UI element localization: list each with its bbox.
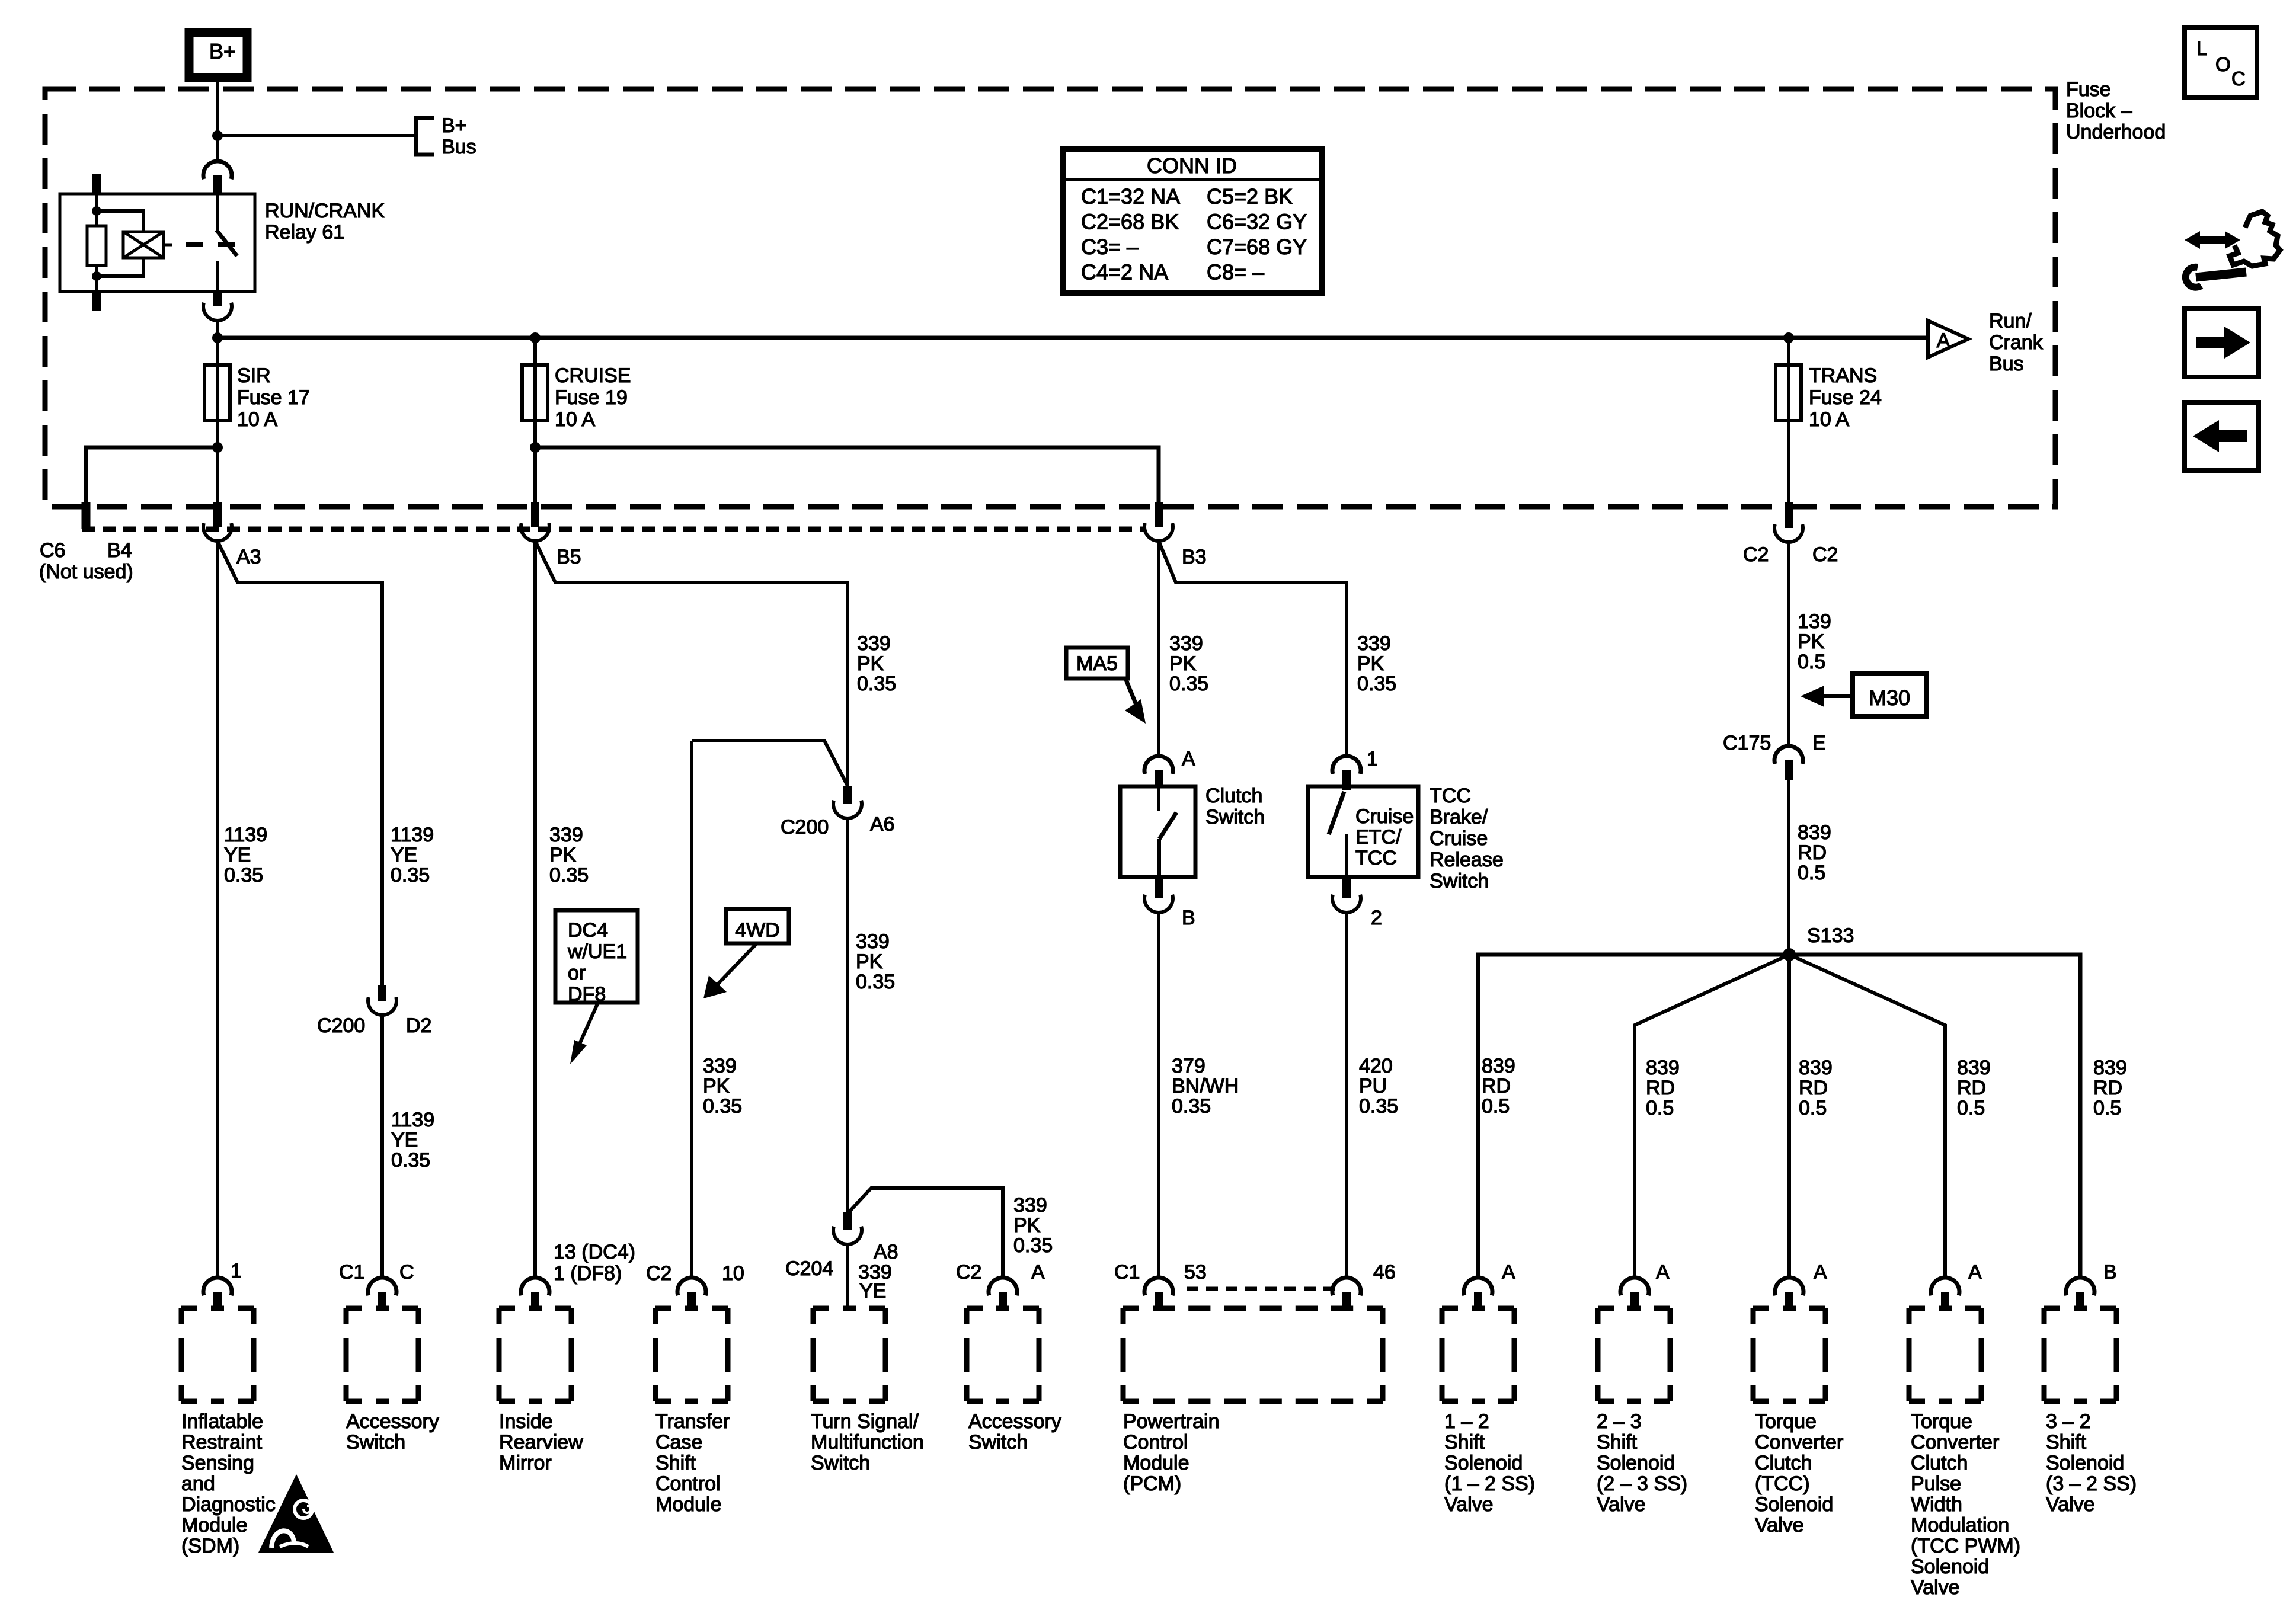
svg-text:Module: Module [655, 1493, 722, 1516]
svg-text:Clutch: Clutch [1755, 1452, 1812, 1474]
svg-text:Diagnostic: Diagnostic [181, 1493, 276, 1516]
svg-text:839: 839 [2093, 1057, 2127, 1079]
svg-text:Solenoid: Solenoid [1911, 1555, 1989, 1578]
svg-text:Transfer: Transfer [655, 1410, 730, 1433]
harness connector dotted line C200 row [82, 527, 1144, 532]
svg-text:0.35: 0.35 [391, 864, 430, 886]
svg-text:Shift: Shift [655, 1452, 696, 1474]
coil branch wires [97, 211, 143, 232]
wire B+ to relay [216, 78, 219, 161]
svg-text:1: 1 [231, 1260, 242, 1282]
connector pin into component at x=2272 [1332, 1278, 1361, 1295]
svg-text:A: A [1656, 1261, 1670, 1283]
svg-text:RD: RD [2093, 1077, 2122, 1099]
node: junction below CRUISE fuse [530, 442, 541, 453]
service manual icon (arrow, silhouette, wrench) [2185, 212, 2280, 287]
svg-text:Bus: Bus [1989, 353, 2024, 375]
svg-text:Valve: Valve [2046, 1493, 2095, 1516]
svg-text:C200: C200 [781, 816, 829, 838]
svg-text:339: 339 [857, 632, 891, 655]
fuse block underhood dashed outline [45, 89, 2055, 507]
svg-text:1: 1 [1367, 748, 1378, 770]
svg-text:A: A [1031, 1261, 1045, 1283]
svg-text:Fuse 19: Fuse 19 [555, 386, 628, 409]
component box: TCC PWM Solenoid Valve [1909, 1306, 1981, 1311]
connector pin into component at x=903 [521, 1278, 549, 1295]
svg-text:Width: Width [1911, 1493, 1962, 1516]
svg-text:53: 53 [1184, 1261, 1207, 1283]
svg-text:O: O [2215, 53, 2231, 75]
wire to B4 terminal [86, 447, 218, 502]
wire A3 down to SDM [216, 541, 219, 1278]
svg-text:w/UE1: w/UE1 [567, 940, 627, 963]
connector pin into component at x=367 [203, 1278, 232, 1295]
svg-text:339: 339 [1357, 632, 1391, 655]
svg-text:or: or [568, 962, 586, 984]
svg-text:MA5: MA5 [1076, 652, 1118, 675]
svg-text:Shift: Shift [1597, 1431, 1638, 1454]
svg-text:A6: A6 [870, 813, 895, 836]
svg-text:PK: PK [549, 844, 577, 866]
svg-text:C: C [399, 1261, 414, 1283]
connector pin into component at x=3019 [1775, 1278, 1803, 1295]
4WD option box [726, 909, 789, 943]
svg-text:Fuse 17: Fuse 17 [237, 386, 310, 409]
svg-text:Block –: Block – [2066, 100, 2132, 122]
svg-text:E: E [1812, 732, 1826, 754]
connector C200 pin D2 [378, 985, 386, 1001]
svg-text:Solenoid: Solenoid [2046, 1452, 2124, 1474]
svg-text:B3: B3 [1182, 546, 1207, 568]
CONN ID table [1063, 149, 1322, 293]
wire branch B3 to cruise switch [1159, 541, 1347, 756]
svg-text:RD: RD [1482, 1075, 1511, 1097]
component box: Inflatable Restraint SDM [181, 1306, 254, 1311]
svg-text:B+: B+ [209, 39, 236, 63]
svg-text:Converter: Converter [1755, 1431, 1843, 1454]
svg-text:0.35: 0.35 [1172, 1095, 1211, 1118]
svg-text:C200: C200 [317, 1014, 365, 1037]
svg-text:Solenoid: Solenoid [1597, 1452, 1675, 1474]
svg-text:Multifunction: Multifunction [811, 1431, 924, 1454]
svg-text:C2=68 BK: C2=68 BK [1081, 210, 1179, 234]
svg-text:Clutch: Clutch [1205, 785, 1262, 807]
svg-text:B: B [1182, 907, 1195, 929]
svg-text:0.35: 0.35 [549, 864, 589, 886]
wire bus to TRANS fuse [1787, 338, 1790, 365]
svg-text:PK: PK [1357, 652, 1384, 675]
relay coil (X box) [123, 232, 164, 258]
component box: Accessory Switch 2 [967, 1306, 1039, 1311]
svg-text:Control: Control [655, 1473, 721, 1495]
clutch switch contacts [1157, 786, 1160, 811]
svg-text:339: 339 [549, 824, 583, 846]
connector pin 1 cruise switch [1332, 756, 1361, 774]
svg-text:PU: PU [1359, 1075, 1387, 1097]
connector pin into component at x=1167 [677, 1278, 706, 1295]
svg-text:Converter: Converter [1911, 1431, 1999, 1454]
svg-text:CRUISE: CRUISE [555, 364, 631, 387]
LOC legend box [2185, 28, 2257, 98]
svg-text:TCC: TCC [1430, 785, 1471, 807]
wire to B3 drop [535, 447, 1159, 502]
component box: Turn Signal/Multifunction Switch [813, 1306, 885, 1311]
svg-text:C2: C2 [1743, 543, 1769, 566]
wire S133 to 3-2 shift solenoid [1789, 955, 2080, 1278]
svg-text:A3: A3 [236, 546, 261, 568]
svg-text:YE: YE [391, 1129, 418, 1151]
B+ battery feed terminal [189, 33, 247, 78]
svg-text:BN/WH: BN/WH [1172, 1075, 1239, 1097]
svg-text:Switch: Switch [1205, 806, 1265, 828]
svg-text:TRANS: TRANS [1809, 364, 1877, 387]
component box: Inside Rearview Mirror [499, 1306, 571, 1311]
svg-text:Brake/: Brake/ [1430, 806, 1488, 828]
svg-text:Fuse: Fuse [2066, 78, 2111, 101]
svg-text:339: 339 [703, 1055, 737, 1077]
svg-text:YE: YE [859, 1280, 886, 1302]
coil-to-switch dashed actuator link [164, 244, 172, 247]
svg-text:Accessory: Accessory [346, 1410, 439, 1433]
wire S133 to TCC solenoid [1787, 955, 1791, 1278]
svg-text:839: 839 [1482, 1055, 1515, 1077]
svg-text:Valve: Valve [1444, 1493, 1494, 1516]
svg-text:TCC: TCC [1355, 847, 1397, 869]
svg-text:2: 2 [1371, 907, 1382, 929]
svg-text:1139: 1139 [224, 824, 267, 846]
svg-text:RD: RD [1799, 1077, 1828, 1099]
svg-text:C2: C2 [956, 1261, 981, 1283]
svg-text:(3 – 2 SS): (3 – 2 SS) [2046, 1473, 2137, 1495]
svg-text:Control: Control [1123, 1431, 1188, 1454]
svg-text:10 A: 10 A [555, 408, 595, 431]
svg-text:Turn Signal/: Turn Signal/ [811, 1410, 919, 1433]
wire S133 to 1-2 shift solenoid [1478, 955, 1789, 1278]
connector C204 pin A8 [843, 1212, 852, 1230]
svg-text:Shift: Shift [1444, 1431, 1485, 1454]
wire: run/crank bus feed [218, 336, 1928, 340]
svg-text:Powertrain: Powertrain [1123, 1410, 1220, 1433]
dashed link between PCM pins 53 and 46 [1187, 1287, 1341, 1291]
svg-text:0.5: 0.5 [1646, 1097, 1674, 1119]
connector pin into component at x=3282 [1931, 1278, 1959, 1295]
svg-text:Switch: Switch [811, 1452, 870, 1474]
wire CRUISE relay output to SIR fuse [216, 338, 219, 365]
svg-text:0.35: 0.35 [703, 1095, 742, 1118]
svg-text:DC4: DC4 [568, 919, 608, 942]
component box: Accessory Switch 1 [346, 1306, 418, 1311]
wire B3 down to clutch switch [1157, 541, 1160, 756]
component box: Powertrain Control Module (PCM) [1123, 1306, 1383, 1311]
svg-text:0.35: 0.35 [1169, 673, 1208, 695]
connector pin into component at x=645 [368, 1278, 396, 1295]
svg-text:Sensing: Sensing [181, 1452, 254, 1474]
component box: TCC Solenoid Valve [1753, 1306, 1825, 1311]
clutch switch box [1120, 786, 1195, 877]
svg-text:RD: RD [1646, 1077, 1675, 1099]
svg-text:3 – 2: 3 – 2 [2046, 1410, 2091, 1433]
svg-text:379: 379 [1172, 1055, 1205, 1077]
forward arrow box [2185, 309, 2259, 377]
splice S133 [1783, 948, 1796, 961]
svg-text:B4: B4 [107, 539, 132, 562]
svg-text:13 (DC4): 13 (DC4) [554, 1241, 635, 1263]
connector pin into component at x=2494 [1464, 1278, 1492, 1295]
wire branch B5 to C200 A6 [535, 541, 848, 786]
svg-text:S133: S133 [1807, 924, 1854, 947]
svg-text:Inflatable: Inflatable [181, 1410, 263, 1433]
svg-text:A: A [1968, 1261, 1982, 1283]
svg-text:Underhood: Underhood [2066, 121, 2166, 143]
component box: 1-2 Shift Solenoid Valve [1442, 1306, 1514, 1311]
svg-text:46: 46 [1373, 1261, 1396, 1283]
svg-text:0.35: 0.35 [391, 1149, 430, 1172]
svg-text:C204: C204 [785, 1257, 833, 1280]
svg-text:0.5: 0.5 [1798, 862, 1825, 884]
svg-text:C2: C2 [1812, 543, 1838, 566]
svg-text:PK: PK [1013, 1214, 1041, 1237]
svg-text:139: 139 [1798, 610, 1831, 633]
fuse SIR Fuse 17 10A [204, 365, 230, 421]
svg-text:10: 10 [722, 1262, 744, 1285]
svg-text:M30: M30 [1869, 686, 1910, 710]
svg-text:B+: B+ [442, 114, 467, 137]
svg-text:C6=32 GY: C6=32 GY [1207, 210, 1307, 234]
svg-text:420: 420 [1359, 1055, 1393, 1077]
svg-text:10 A: 10 A [237, 408, 277, 431]
svg-text:0.5: 0.5 [1957, 1097, 1985, 1119]
svg-text:Switch: Switch [1430, 870, 1489, 892]
svg-text:Clutch: Clutch [1911, 1452, 1968, 1474]
svg-text:Pulse: Pulse [1911, 1473, 1961, 1495]
wire A6 down to C204 [846, 818, 849, 1212]
svg-text:0.35: 0.35 [1357, 673, 1396, 695]
svg-text:839: 839 [1799, 1057, 1833, 1079]
connector pin A clutch switch [1144, 756, 1173, 774]
svg-text:(SDM): (SDM) [181, 1535, 239, 1557]
svg-text:A: A [1937, 329, 1950, 352]
connector pin into component at x=2758 [1620, 1278, 1649, 1295]
wire branch A3 to accessory switch [218, 541, 382, 985]
wire C175 to S133 [1787, 780, 1790, 955]
svg-text:Valve: Valve [1597, 1493, 1646, 1516]
svg-text:Solenoid: Solenoid [1755, 1493, 1833, 1516]
svg-text:DF8: DF8 [568, 983, 606, 1006]
connector A3 at fuse block [213, 502, 222, 527]
cruise ETC/TCC switch box [1308, 786, 1418, 877]
svg-text:0.35: 0.35 [1359, 1095, 1398, 1118]
svg-text:C: C [2231, 68, 2246, 89]
svg-text:CONN ID: CONN ID [1147, 153, 1237, 178]
svg-text:L: L [2196, 37, 2207, 59]
svg-text:B: B [2103, 1261, 2117, 1283]
svg-text:PK: PK [1169, 652, 1197, 675]
svg-text:(TCC): (TCC) [1755, 1473, 1810, 1495]
node: B+ bus tap junction [212, 130, 223, 141]
svg-text:839: 839 [1798, 821, 1831, 844]
relay switch contact [216, 194, 219, 230]
terminal B4 (not used) [82, 502, 91, 529]
svg-text:Valve: Valve [1755, 1514, 1804, 1537]
svg-text:0.35: 0.35 [857, 673, 896, 695]
node: junction at CRUISE fuse [530, 332, 541, 343]
svg-text:339: 339 [1169, 632, 1203, 655]
svg-text:Cruise: Cruise [1355, 805, 1414, 828]
svg-text:(1 – 2 SS): (1 – 2 SS) [1444, 1473, 1535, 1495]
svg-text:PK: PK [856, 950, 883, 973]
node: junction below SIR fuse [212, 442, 223, 453]
back arrow box [2185, 402, 2259, 470]
svg-text:ETC/: ETC/ [1355, 826, 1402, 849]
svg-text:0.5: 0.5 [2093, 1097, 2121, 1119]
svg-text:Inside: Inside [499, 1410, 553, 1433]
svg-text:0.5: 0.5 [1799, 1097, 1827, 1119]
svg-text:A8: A8 [874, 1241, 898, 1263]
connector pin into component at x=3510 [2066, 1278, 2094, 1295]
svg-text:C2: C2 [646, 1262, 671, 1285]
component box: 2-3 Shift Solenoid Valve [1598, 1306, 1670, 1311]
arrow from 4WD box to transfer case wire [714, 943, 757, 988]
svg-text:SIR: SIR [237, 364, 271, 387]
svg-text:Switch: Switch [346, 1431, 405, 1454]
svg-text:PK: PK [857, 652, 884, 675]
svg-text:C8= –: C8= – [1207, 260, 1264, 284]
svg-text:1139: 1139 [391, 824, 434, 846]
svg-text:Release: Release [1430, 849, 1504, 871]
svg-text:1 (DF8): 1 (DF8) [554, 1262, 622, 1285]
DC4 w/UE1 or DF8 option box [555, 910, 638, 1003]
svg-text:B5: B5 [557, 546, 581, 568]
svg-text:839: 839 [1646, 1057, 1680, 1079]
svg-text:C5=2 BK: C5=2 BK [1207, 184, 1293, 209]
wire cruise switch to PCM 46 [1345, 913, 1348, 1278]
svg-text:C1: C1 [339, 1261, 364, 1283]
svg-text:Case: Case [655, 1431, 702, 1454]
node: junction at TRANS fuse [1783, 332, 1794, 343]
svg-text:C175: C175 [1723, 732, 1771, 754]
wire C2 to C175 [1787, 542, 1790, 746]
svg-text:0.35: 0.35 [224, 864, 263, 886]
svg-text:4WD: 4WD [735, 919, 780, 942]
arrow from M30 box to wire [1812, 694, 1853, 698]
svg-text:Modulation: Modulation [1911, 1514, 2009, 1537]
wire S133 to 2-3 shift solenoid [1635, 955, 1789, 1278]
svg-text:RD: RD [1957, 1077, 1986, 1099]
svg-text:0.35: 0.35 [1013, 1234, 1053, 1257]
connector C200 pin A6 [843, 786, 852, 804]
arrow from MA5 box to wire [1125, 678, 1139, 710]
svg-text:Bus: Bus [442, 136, 477, 158]
svg-text:339: 339 [856, 930, 890, 953]
M30 circuit tag box [1853, 674, 1926, 716]
svg-text:Accessory: Accessory [968, 1410, 1061, 1433]
wire branch to accessory switch 2 [848, 1188, 1003, 1278]
svg-text:C4=2 NA: C4=2 NA [1081, 260, 1168, 284]
wire to B+ Bus symbol [218, 134, 414, 137]
SDM airbag warning triangle [258, 1474, 334, 1553]
svg-text:Module: Module [181, 1514, 248, 1537]
connector B3 at fuse block [1155, 502, 1163, 527]
arrow from DC4 box to mirror wire [578, 1003, 598, 1048]
svg-text:Crank: Crank [1989, 331, 2044, 354]
relay internal coil circuit [95, 194, 98, 226]
svg-text:Torque: Torque [1911, 1410, 1972, 1433]
svg-text:Rearview: Rearview [499, 1431, 583, 1454]
svg-text:Shift: Shift [2046, 1431, 2087, 1454]
connector C175 pin E [1774, 746, 1803, 764]
relay coil terminal stub bottom-left [92, 292, 101, 311]
svg-text:C3= –: C3= – [1081, 235, 1139, 259]
svg-text:PK: PK [703, 1075, 730, 1097]
wire B5 down to inside rearview mirror [533, 541, 537, 1278]
svg-text:0.5: 0.5 [1482, 1095, 1510, 1118]
svg-text:and: and [181, 1473, 215, 1495]
svg-text:Torque: Torque [1755, 1410, 1817, 1433]
svg-text:(2 – 3 SS): (2 – 3 SS) [1597, 1473, 1687, 1495]
svg-text:D2: D2 [406, 1014, 431, 1037]
wire bus to CRUISE fuse [533, 338, 537, 365]
wire S133 to TCC PWM solenoid [1789, 955, 1945, 1278]
bus arrow triangle A [1928, 321, 1968, 357]
svg-text:10 A: 10 A [1809, 408, 1849, 431]
svg-text:Solenoid: Solenoid [1444, 1452, 1523, 1474]
component box: Transfer Case Shift Control Module [655, 1306, 728, 1311]
svg-text:Fuse 24: Fuse 24 [1809, 386, 1882, 409]
fuse CRUISE Fuse 19 10A [522, 365, 548, 421]
svg-text:0.35: 0.35 [856, 971, 895, 993]
svg-text:PK: PK [1798, 630, 1825, 653]
connector pin into component at x=1692 [989, 1278, 1017, 1295]
cruise switch contacts [1329, 792, 1344, 834]
svg-text:(TCC PWM): (TCC PWM) [1911, 1535, 2020, 1557]
svg-text:RUN/CRANK: RUN/CRANK [265, 200, 385, 222]
B+ Bus bracket symbol [416, 118, 434, 155]
svg-text:A: A [1814, 1261, 1827, 1283]
svg-text:1 – 2: 1 – 2 [1444, 1410, 1489, 1433]
svg-text:RD: RD [1798, 841, 1827, 864]
connector pin B clutch switch [1155, 877, 1163, 898]
connector pin into component at x=1955 [1144, 1278, 1173, 1295]
fuse TRANS Fuse 24 10A [1776, 365, 1801, 421]
svg-text:Run/: Run/ [1989, 310, 2032, 332]
svg-text:YE: YE [224, 844, 251, 866]
svg-text:Switch: Switch [968, 1431, 1028, 1454]
connector B5 at fuse block [531, 502, 539, 527]
svg-text:C6: C6 [40, 539, 65, 562]
svg-text:C7=68 GY: C7=68 GY [1207, 235, 1307, 259]
connector C2 below TRANS fuse [1785, 502, 1793, 528]
svg-text:(PCM): (PCM) [1123, 1473, 1181, 1495]
svg-text:Restraint: Restraint [181, 1431, 263, 1454]
wire branch to transfer case [692, 741, 848, 786]
inline connector at relay pin (top) [203, 161, 232, 179]
svg-text:Cruise: Cruise [1430, 827, 1488, 850]
svg-text:1139: 1139 [391, 1109, 434, 1131]
relay RUN/CRANK Relay 61 box [60, 194, 255, 292]
svg-text:0.5: 0.5 [1798, 651, 1825, 673]
inline connector at relay pin (bottom) [213, 292, 222, 306]
connector pin 2 cruise switch [1342, 877, 1351, 898]
node: junction at relay output [212, 332, 223, 343]
MA5 circuit tag box [1066, 648, 1128, 678]
svg-text:A: A [1182, 748, 1195, 770]
svg-text:C1: C1 [1114, 1261, 1140, 1283]
component box: 3-2 Shift Solenoid Valve [2044, 1306, 2116, 1311]
svg-text:839: 839 [1957, 1057, 1991, 1079]
svg-text:Mirror: Mirror [499, 1452, 552, 1474]
svg-text:(Not used): (Not used) [39, 561, 133, 583]
resistor inside relay [87, 226, 106, 265]
